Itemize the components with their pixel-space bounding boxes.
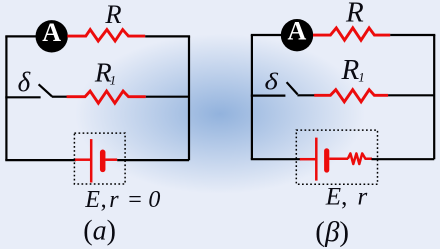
svg-text:(β): (β) [315,216,349,248]
svg-text:δ: δ [18,67,31,97]
svg-text:E,r=0: E,r=0 [84,187,160,213]
wire: right circuit bottom right segment [372,158,435,160]
svg-text:A: A [42,18,61,47]
wire: right circuit right vertical [433,35,435,159]
internal resistance r zigzag (right circuit) [348,153,372,164]
battery short thick plate (left) [100,152,106,169]
wire: right circuit top, left corner to ammeter [251,34,282,36]
svg-text:1: 1 [358,70,365,85]
wire: left circuit top right segment [145,35,190,37]
wire: left middle stub from left vertical to switch [5,96,40,98]
wire: right circuit left vertical [251,35,253,159]
label E,r (right circuit) [325,184,368,211]
label R1 (right circuit) [341,54,365,86]
battery right red lead (left circuit) [105,158,117,161]
svg-text:(a): (a) [83,216,116,247]
wire: right circuit middle right segment [388,94,434,96]
wire: left circuit bottom right segment [117,159,189,161]
battery cell (left circuit): left red lead [75,158,91,161]
wire: left circuit left vertical [5,36,7,160]
svg-text:δ: δ [265,67,279,95]
internal resistance r lead (right circuit) [329,158,348,161]
dotted battery box (right circuit) [296,130,377,184]
wire: left circuit bottom left segment [5,159,76,161]
resistor R (right circuit) with red leads [313,28,390,40]
svg-text:R: R [345,0,364,29]
label switch δ (right circuit) [265,67,279,95]
wire: right circuit top right segment [390,34,435,36]
svg-text:1: 1 [110,73,117,88]
battery short thick plate (right) [324,151,329,170]
svg-text:E,: E, [325,184,348,211]
resistor R (left circuit) with red leads [67,30,145,41]
wire: left circuit top, left corner to ammeter [5,35,37,37]
label R1 (left circuit) [94,57,116,88]
ammeter A (left circuit) [36,18,68,53]
wire: left circuit switch to R1 [52,96,67,98]
battery long plate (right) [315,138,318,181]
svg-text:R: R [104,0,121,29]
battery cell (right circuit): left red lead [300,158,316,161]
svg-text:A: A [288,17,307,46]
wire: left circuit middle right segment [146,96,189,98]
svg-text:R: R [341,54,360,86]
dotted battery box (left circuit) [74,133,125,184]
switch blade (right circuit) [287,82,298,94]
wire: right middle stub from left vertical to switch [251,94,286,96]
resistor R1 (left circuit) with red leads [67,91,146,103]
battery long plate (left) [90,139,93,182]
svg-text:r: r [358,184,368,211]
ammeter A (right circuit) [281,17,313,52]
switch blade (left circuit) [39,84,52,96]
wire: right circuit switch to R1 [297,94,314,96]
resistor R1 (right circuit) with red leads [314,90,388,102]
wire: left circuit right vertical [188,36,190,160]
wire: right circuit bottom left segment [251,158,301,160]
